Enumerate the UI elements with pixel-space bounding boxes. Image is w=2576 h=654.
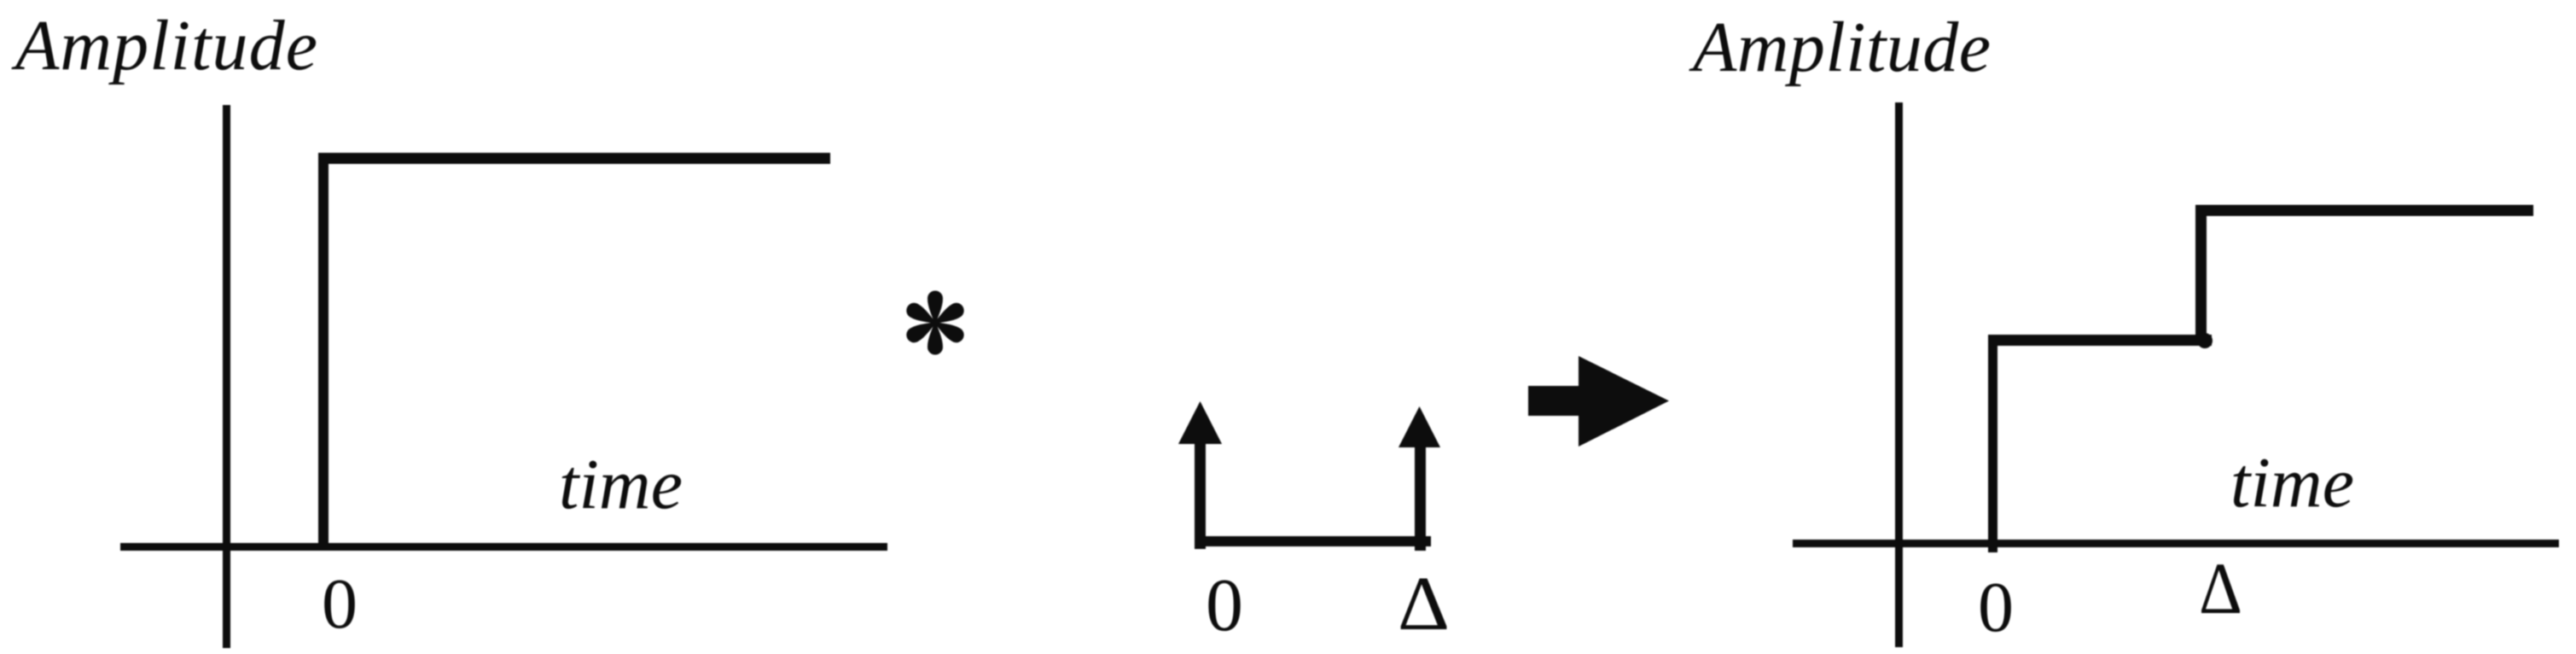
svg-text:Amplitude: Amplitude (1689, 8, 1991, 87)
svg-text:0: 0 (1206, 564, 1243, 647)
svg-text:0: 0 (322, 564, 358, 644)
svg-text:0: 0 (1978, 568, 2014, 647)
svg-text:time: time (559, 445, 683, 524)
svg-text:Δ: Δ (2199, 547, 2242, 629)
svg-text:Δ: Δ (1398, 562, 1450, 646)
svg-text:Amplitude: Amplitude (11, 6, 317, 85)
svg-text:time: time (2230, 443, 2354, 523)
